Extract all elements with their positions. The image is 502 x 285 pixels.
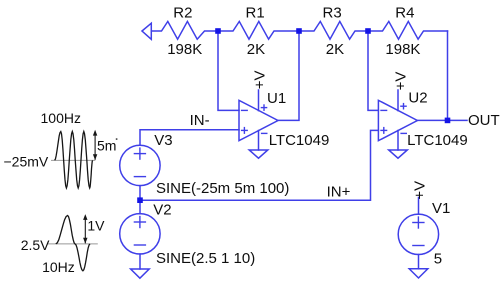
svg-text:V1: V1 xyxy=(432,200,450,217)
svg-text:IN-: IN- xyxy=(190,112,210,129)
svg-text:+V: +V xyxy=(412,181,429,200)
svg-text:R4: R4 xyxy=(395,5,414,22)
svg-text:LTC1049: LTC1049 xyxy=(269,132,330,149)
svg-text:+V: +V xyxy=(393,72,410,91)
svg-text:1V: 1V xyxy=(87,218,105,234)
svg-text:2K: 2K xyxy=(326,41,344,58)
svg-text:V3: V3 xyxy=(154,132,172,149)
svg-text:−25mV: −25mV xyxy=(4,154,49,170)
svg-text:IN+: IN+ xyxy=(327,184,351,201)
svg-text:2.5V: 2.5V xyxy=(21,237,50,253)
svg-text:2K: 2K xyxy=(247,41,265,58)
svg-text:+V: +V xyxy=(252,71,269,90)
svg-text:U2: U2 xyxy=(408,90,427,107)
svg-text:OUT: OUT xyxy=(468,112,500,129)
svg-text:U1: U1 xyxy=(267,90,286,107)
svg-text:R1: R1 xyxy=(246,5,265,22)
svg-text:5: 5 xyxy=(434,251,442,268)
svg-text:R2: R2 xyxy=(173,5,192,22)
svg-text:198K: 198K xyxy=(385,41,420,58)
svg-text:5m: 5m xyxy=(97,138,116,154)
svg-text:SINE(2.5 1 10): SINE(2.5 1 10) xyxy=(156,250,255,267)
svg-text:LTC1049: LTC1049 xyxy=(407,132,468,149)
svg-text:V2: V2 xyxy=(153,202,171,219)
svg-text:198K: 198K xyxy=(167,41,202,58)
svg-text:100Hz: 100Hz xyxy=(41,110,81,126)
svg-text:10Hz: 10Hz xyxy=(42,259,75,275)
svg-text:R3: R3 xyxy=(323,5,342,22)
svg-text:SINE(-25m 5m 100): SINE(-25m 5m 100) xyxy=(156,180,289,197)
